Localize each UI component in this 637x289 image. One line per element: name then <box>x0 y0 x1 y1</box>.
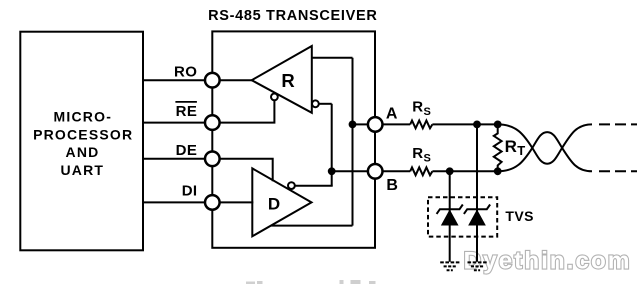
wire TVS left vertical (B) <box>449 171 451 261</box>
wire DE to D enable <box>220 159 272 181</box>
ground right <box>468 262 487 270</box>
svg-text:R: R <box>412 145 423 162</box>
TVS dashed box <box>428 197 497 236</box>
svg-text:PROCESSOR: PROCESSOR <box>33 126 133 142</box>
wire RO to R apex <box>220 79 252 81</box>
wire B to RS <box>383 170 410 172</box>
wire R input tap <box>312 57 353 59</box>
transceiver box U1 <box>212 31 375 247</box>
svg-text:S: S <box>424 106 431 118</box>
svg-text:MICRO-: MICRO- <box>54 109 113 125</box>
resistor RS (A line) <box>410 121 432 129</box>
svg-text:AND: AND <box>66 144 100 160</box>
pin circle DE <box>205 152 220 167</box>
receiver R triangle <box>252 46 312 113</box>
wire RS to twisted pair (B) <box>432 170 497 172</box>
twisted pair dashed continuation bottom <box>599 170 637 172</box>
svg-text:DI: DI <box>182 182 198 199</box>
wire D bubble to B net <box>295 185 333 187</box>
junction dot A-RT <box>494 121 502 129</box>
wire net A vertical <box>352 58 354 226</box>
wire A to RS <box>383 123 410 125</box>
resistor RT vertical <box>494 124 502 171</box>
svg-text:UART: UART <box>60 162 104 178</box>
bubble D inverting output <box>288 182 295 189</box>
svg-text:RS-485 TRANSCEIVER: RS-485 TRANSCEIVER <box>208 8 377 24</box>
twisted pair dashed continuation top <box>599 123 637 125</box>
wire DE <box>142 158 204 160</box>
svg-text:R: R <box>281 70 294 91</box>
wire net B vertical <box>331 104 333 186</box>
svg-text:R: R <box>412 99 423 116</box>
wire RO <box>142 79 204 81</box>
resistor RS (B line) <box>410 167 432 175</box>
wire D output tap <box>271 225 352 227</box>
svg-text:R: R <box>505 137 517 156</box>
junction dot B-TVS <box>446 167 454 175</box>
pin circle RE <box>205 115 220 130</box>
microprocessor box U-MCU <box>20 32 143 251</box>
svg-text:RO: RO <box>174 63 197 80</box>
wire TVS right vertical (A) <box>476 124 478 261</box>
TVS diode D1 <box>437 205 463 226</box>
wire B line inside box <box>332 170 368 172</box>
wire RE to R enable bubble <box>220 100 274 123</box>
wire R bubble to B net <box>319 103 332 105</box>
cropped caption remnants at bottom <box>246 280 376 284</box>
junction dot B-RT <box>494 167 502 175</box>
twisted pair wire 2 <box>498 132 592 171</box>
pin circle RO <box>205 73 220 88</box>
wire A line inside box <box>353 123 368 125</box>
pin circle DI <box>205 195 220 210</box>
svg-text:D: D <box>268 194 280 213</box>
pin circle A <box>368 117 383 132</box>
svg-text:S: S <box>424 152 431 164</box>
TVS diode D2 <box>464 205 490 226</box>
svg-text:TVS: TVS <box>505 208 533 224</box>
svg-text:T: T <box>517 143 525 158</box>
svg-text:Dyethin.com: Dyethin.com <box>464 247 632 274</box>
ground left <box>440 262 459 270</box>
junction dot B inner <box>328 167 336 175</box>
microprocessor box label <box>33 109 133 179</box>
driver D triangle <box>252 168 311 236</box>
wire RE <box>142 122 204 124</box>
wire DI <box>142 201 204 203</box>
junction dot A inner <box>349 121 357 129</box>
wire RS to twisted pair (A) <box>432 123 497 125</box>
svg-text:DE: DE <box>176 142 198 159</box>
wire DI to D input <box>220 201 253 203</box>
svg-text:B: B <box>386 177 398 194</box>
junction dot A-TVS <box>473 121 481 129</box>
svg-text:A: A <box>386 105 398 122</box>
pin circle B <box>368 164 383 179</box>
bubble R inverting input <box>312 100 319 107</box>
twisted pair wire 1 <box>498 124 592 163</box>
bubble R enable <box>271 94 278 101</box>
svg-text:RE: RE <box>176 103 198 120</box>
